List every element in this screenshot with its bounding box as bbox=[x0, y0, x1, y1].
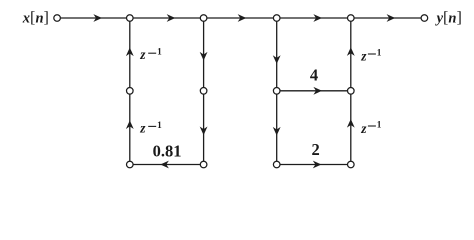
output terminal circle bbox=[421, 15, 428, 22]
svg-text:0.81: 0.81 bbox=[153, 141, 182, 160]
delay label z^-1, col4 lower bbox=[360, 121, 382, 137]
svg-text:x[n]: x[n] bbox=[22, 9, 49, 27]
arrow right, input wire bbox=[93, 14, 102, 22]
arrow up, col4 lower segment bbox=[347, 119, 355, 128]
wire col4 vertical (up path, section 2) bbox=[350, 18, 352, 165]
delay label z^-1, col1 upper bbox=[139, 47, 162, 62]
delay label z^-1, col1 lower bbox=[139, 120, 162, 135]
wire col2 vertical (down path, section 1) bbox=[203, 18, 205, 165]
svg-text:1: 1 bbox=[377, 49, 382, 59]
arrow up, col4 upper segment bbox=[347, 47, 355, 56]
svg-text:1: 1 bbox=[157, 48, 162, 58]
node top col1 bbox=[127, 15, 134, 22]
arrow right, top wire node3-node4 bbox=[313, 14, 322, 22]
svg-text:1: 1 bbox=[157, 121, 162, 131]
svg-text:z: z bbox=[139, 120, 146, 135]
svg-text:1: 1 bbox=[377, 121, 382, 131]
input terminal circle bbox=[54, 15, 61, 22]
wire bottom gain-0.81 branch bbox=[130, 164, 204, 166]
arrow down, col3 upper segment bbox=[273, 55, 281, 64]
node top col3 bbox=[273, 15, 280, 22]
arrow right, output wire bbox=[387, 14, 396, 22]
arrow right, top wire node1-node2 bbox=[167, 14, 176, 22]
arrow up, col1 lower segment bbox=[126, 120, 134, 129]
wire mid gain-4 branch bbox=[277, 90, 351, 92]
arrow up, col1 upper segment bbox=[126, 48, 134, 57]
node bottom col2 bbox=[200, 161, 207, 168]
node bottom col3 bbox=[273, 161, 280, 168]
node bottom col4 bbox=[348, 161, 355, 168]
arrow down, col2 upper segment bbox=[200, 52, 208, 61]
wire col3 vertical (down path, section 2) bbox=[276, 18, 278, 165]
node top col4 bbox=[348, 15, 355, 22]
node bottom col1 bbox=[127, 161, 134, 168]
arrow right, top wire node2-node3 bbox=[238, 14, 247, 22]
node mid col3 bbox=[273, 88, 280, 95]
arrow right, bottom gain-2 branch bbox=[313, 161, 322, 169]
node top col2 bbox=[200, 15, 207, 22]
node mid col2 bbox=[200, 88, 207, 95]
delay label z^-1, col4 upper bbox=[360, 48, 382, 63]
svg-text:z: z bbox=[360, 48, 367, 63]
svg-text:4: 4 bbox=[310, 65, 318, 84]
arrow right, mid gain-4 branch bbox=[313, 87, 322, 95]
svg-text:z: z bbox=[360, 121, 367, 136]
svg-text:y[n]: y[n] bbox=[435, 9, 462, 27]
arrow down, col2 lower segment bbox=[200, 127, 208, 136]
node mid col4 bbox=[348, 88, 355, 95]
arrow down, col3 lower segment bbox=[273, 127, 281, 136]
wire bottom gain-2 branch bbox=[277, 164, 351, 166]
wire top row x[n] to y[n] bbox=[61, 17, 421, 19]
node mid col1 bbox=[127, 88, 134, 95]
wire col1 vertical (feedback up path, section 1) bbox=[129, 18, 131, 165]
arrow left, bottom gain-0.81 branch bbox=[160, 161, 169, 169]
svg-text:z: z bbox=[139, 47, 146, 62]
svg-text:2: 2 bbox=[311, 140, 319, 159]
